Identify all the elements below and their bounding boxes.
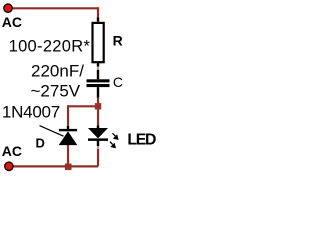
LED top lead [97, 126, 99, 129]
diode D top lead [67, 126, 69, 129]
svg-text:D: D [36, 135, 45, 150]
svg-text:100-220R*: 100-220R* [9, 38, 91, 56]
wire left branch down to diode [67, 105, 69, 127]
resistor R top lead [97, 18, 99, 22]
wire junction down to LED [97, 105, 99, 126]
wire LED to bottom wire [97, 149, 99, 166]
resistor R bottom lead [97, 63, 99, 67]
wire diode to bottom junction [67, 145, 69, 166]
wire bottom AC to LED branch [9, 165, 99, 167]
capacitor C top lead [97, 70, 99, 80]
wire top AC to resistor [8, 7, 98, 9]
node AC top terminal [4, 4, 12, 12]
svg-text:R: R [113, 33, 123, 49]
wire [97, 7, 99, 18]
resistor R body [93, 23, 104, 62]
node junction bottom left branch [65, 164, 72, 171]
leader line from 1N4007 label to diode D [40, 126, 64, 137]
capacitor C bottom lead [97, 87, 99, 98]
svg-text:1N4007: 1N4007 [2, 103, 60, 122]
wire capacitor to junction [97, 98, 99, 107]
svg-text:AC: AC [2, 143, 22, 159]
svg-text:LED: LED [127, 132, 156, 149]
svg-text:~275V: ~275V [31, 82, 81, 101]
LED light arrow 1 [113, 133, 116, 136]
diode D bottom lead [67, 144, 69, 147]
svg-text:AC: AC [2, 14, 22, 30]
node junction at capacitor bottom [95, 103, 101, 109]
LED light arrow 2 [110, 142, 113, 145]
node AC bottom terminal [5, 162, 13, 170]
diode D triangle (pointing up) [59, 131, 78, 145]
LED triangle (pointing down) [88, 128, 108, 138]
svg-text:C: C [113, 74, 123, 90]
wire LED to bottom (light segment) [97, 146, 99, 149]
svg-text:220nF/: 220nF/ [31, 61, 84, 80]
diode D cathode bar [59, 129, 77, 131]
wire junction horizontal to left branch [68, 105, 98, 107]
LED bottom lead [97, 141, 99, 146]
capacitor C plates [87, 79, 110, 82]
wire resistor to capacitor (light segment) [97, 67, 99, 70]
LED cathode bar [88, 138, 108, 141]
